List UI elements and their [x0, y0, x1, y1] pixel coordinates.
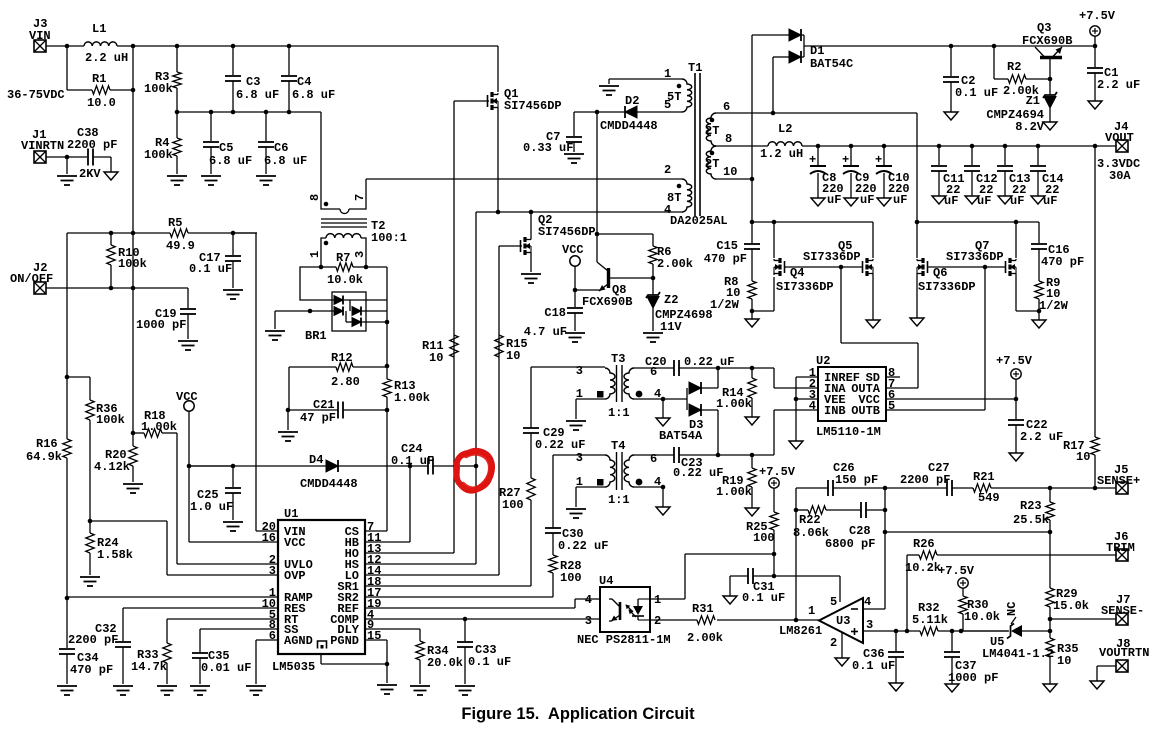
wire LO stub [365, 574, 499, 576]
resistor R15 10 [495, 335, 503, 357]
wire Q2 gate [499, 245, 522, 247]
svg-text:1.00k: 1.00k [141, 420, 177, 434]
svg-text:3: 3 [353, 251, 367, 258]
svg-text:U1: U1 [284, 507, 298, 521]
svg-text:47 pF: 47 pF [300, 411, 336, 425]
diode bridge BR1 [332, 292, 366, 331]
wire RAMP [67, 596, 278, 598]
capacitor C24 0.1 uF [427, 458, 429, 475]
power +7.5V [1090, 26, 1100, 36]
wire R26 down [906, 555, 908, 631]
wire vertical input divider [132, 46, 134, 433]
svg-text:0.1 uF: 0.1 uF [852, 659, 895, 673]
svg-text:16: 16 [262, 531, 276, 545]
svg-text:2KV: 2KV [79, 167, 101, 181]
node junction [1093, 44, 1098, 49]
svg-text:1.00k: 1.00k [716, 485, 752, 499]
capacitor C29 0.22 uF [530, 433, 532, 478]
resistor R33 14.7k [166, 619, 168, 643]
svg-text:1000 pF: 1000 pF [136, 318, 186, 332]
svg-text:2: 2 [654, 614, 661, 628]
wire [210, 112, 212, 141]
svg-text:+: + [875, 153, 882, 167]
diode D4 CMDD4448 [326, 460, 338, 472]
wire U3 pin2 ground [841, 632, 843, 658]
wire OUTB net [886, 409, 985, 411]
svg-text:100k: 100k [118, 257, 147, 271]
wire [361, 238, 366, 267]
capacitor C22 2.2 uF [1015, 399, 1017, 419]
wire Q4 source [752, 310, 774, 312]
wire SENSE- row [1050, 618, 1116, 620]
svg-text:R2: R2 [1007, 60, 1021, 74]
node junction [883, 508, 888, 513]
wire T1 pin6 [716, 112, 917, 114]
transformer T2 core [321, 218, 367, 220]
wire [176, 156, 178, 174]
wire [110, 265, 112, 288]
resistor R29 15.0k [1046, 588, 1054, 607]
node junction [661, 397, 666, 402]
wire [93, 156, 111, 158]
op-amp U4 NEC PS2811-1M optocoupler [600, 587, 650, 632]
wire U3 pin5 [839, 576, 841, 602]
node junction [385, 320, 390, 325]
transistor Q7 SI7336DP [1008, 258, 1011, 263]
svg-text:4: 4 [864, 595, 871, 609]
wire [353, 266, 366, 268]
ground Q5 [866, 320, 880, 328]
wire T3 pin1 [576, 398, 605, 400]
wire [232, 46, 234, 75]
svg-text:2.2 uH: 2.2 uH [85, 51, 128, 65]
wire [110, 233, 112, 245]
svg-text:DA2025AL: DA2025AL [670, 214, 728, 228]
node junction [131, 44, 136, 49]
capacitor C8 220 uF [817, 146, 819, 165]
svg-text:10.0k: 10.0k [964, 610, 1000, 624]
wire minus input column [884, 488, 886, 609]
node junction [1003, 144, 1008, 149]
ground C1 [1088, 101, 1102, 109]
diode D3 BAT54A [686, 388, 688, 410]
transformer T3 1:1 [605, 368, 615, 399]
svg-text:0.1 uF: 0.1 uF [468, 655, 511, 669]
svg-text:2.2 uF: 2.2 uF [1097, 78, 1140, 92]
wire [122, 647, 124, 684]
svg-text:0.1 uF: 0.1 uF [955, 86, 998, 100]
power +7.5V [1011, 369, 1021, 379]
svg-text:8.2V: 8.2V [1015, 120, 1045, 134]
resistor R5 49.9 [170, 229, 188, 237]
node junction [65, 596, 70, 601]
wire [386, 664, 388, 683]
resistor R2 2.00k [993, 46, 995, 79]
svg-text:R12: R12 [331, 351, 353, 365]
wire T3 pin3 [531, 366, 605, 368]
capacitor C11 22 uF [938, 146, 940, 165]
wire [166, 663, 168, 684]
resistor R34 20.0k [419, 629, 421, 641]
node junction [1093, 144, 1098, 149]
svg-text:uF: uF [1043, 194, 1057, 208]
svg-text:6.8 uF: 6.8 uF [264, 154, 307, 168]
ground Q6 [910, 318, 924, 326]
svg-text:uF: uF [893, 193, 907, 207]
svg-text:20.0k: 20.0k [427, 656, 463, 670]
svg-text:0.22 uF: 0.22 uF [535, 438, 585, 452]
svg-text:2200 pF: 2200 pF [900, 473, 950, 487]
svg-text:10: 10 [1057, 654, 1071, 668]
capacitor C18 4.7 uF [574, 290, 576, 307]
wire RES [123, 607, 278, 609]
wire C20 out [679, 367, 774, 369]
svg-text:U2: U2 [816, 354, 830, 368]
node junction [408, 464, 413, 469]
node junction [794, 618, 799, 623]
capacitor C30 0.22 uF [552, 533, 554, 555]
wire [265, 112, 267, 141]
svg-text:SI7336DP: SI7336DP [946, 250, 1004, 264]
transistor Q8 FCX690B [607, 268, 610, 288]
svg-text:10: 10 [429, 351, 443, 365]
wire Q6 source [916, 275, 918, 318]
ground R20 [123, 484, 143, 493]
wire DLY [365, 628, 420, 630]
transistor Q2 SI7456DP [530, 212, 532, 238]
wire Q8 emitter [575, 289, 600, 291]
wire [288, 409, 338, 411]
svg-text:Z2: Z2 [664, 293, 678, 307]
svg-text:R16: R16 [36, 437, 58, 451]
node junction [1037, 309, 1042, 314]
svg-text:VCC: VCC [284, 536, 306, 550]
svg-text:30A: 30A [1109, 169, 1131, 183]
wire [89, 553, 91, 575]
ground Z2 [643, 333, 663, 342]
svg-text:2T: 2T [705, 124, 719, 138]
wire sync rail A [752, 221, 873, 223]
svg-text:36-75VDC: 36-75VDC [7, 88, 65, 102]
wire [89, 521, 91, 533]
ground C8 [811, 198, 825, 206]
node junction [1048, 530, 1053, 535]
node junction [131, 286, 136, 291]
capacitor C10 220 uF [883, 146, 885, 165]
resistor R17 10 [1094, 146, 1096, 437]
node junction [950, 629, 955, 634]
svg-text:LM5035: LM5035 [272, 660, 315, 674]
wire R31 to U4 [650, 619, 697, 621]
svg-text:3: 3 [576, 451, 583, 465]
capacitor C36 0.1 uF [895, 631, 897, 651]
svg-text:+7.5V: +7.5V [938, 564, 975, 578]
wire [133, 432, 144, 434]
node junction [287, 44, 292, 49]
svg-text:VCC: VCC [562, 243, 584, 257]
wire [66, 458, 68, 598]
capacitor C16 470 pF [1038, 222, 1040, 243]
capacitor C20 0.22 uF [673, 360, 675, 376]
wire [66, 46, 68, 90]
svg-text:R21: R21 [973, 470, 995, 484]
resistor R11 10 [450, 335, 458, 357]
terminal J5 SENSE+ [1116, 482, 1128, 494]
wire INB net [773, 410, 775, 455]
svg-text:VOUTRTN: VOUTRTN [1099, 646, 1149, 660]
svg-text:6: 6 [650, 452, 657, 466]
node junction [839, 265, 844, 270]
capacitor C13 22 uF [1004, 146, 1006, 165]
wire UVLO net [176, 433, 178, 564]
transistor Q3 FCX690B [1040, 56, 1062, 59]
transistor Q4 SI7336DP [773, 222, 775, 258]
wire T2 pin7 to T1 pin2 [366, 178, 682, 180]
node junction [65, 155, 70, 160]
wire [89, 377, 91, 400]
wire [751, 368, 753, 378]
svg-text:C3: C3 [246, 75, 260, 89]
svg-text:1/2W: 1/2W [1039, 299, 1069, 313]
wire R23-R29 column [1049, 532, 1051, 588]
svg-text:1000 pF: 1000 pF [948, 671, 998, 685]
wire U2 VCC [886, 398, 1016, 400]
ground C33 [455, 686, 475, 695]
resistor R9 10 1/2W [1035, 281, 1043, 299]
svg-text:uF: uF [1010, 194, 1024, 208]
ground R9 [1032, 320, 1046, 328]
svg-text:CMDD4448: CMDD4448 [300, 477, 358, 491]
svg-text:SENSE+: SENSE+ [1097, 474, 1140, 488]
node junction [1014, 397, 1019, 402]
wire [232, 261, 234, 288]
svg-text:2.00k: 2.00k [657, 257, 693, 271]
wire OUTA net [886, 387, 918, 389]
transformer T1 secondary windings [706, 113, 716, 146]
svg-text:49.9: 49.9 [166, 239, 195, 253]
svg-text:C18: C18 [544, 306, 566, 320]
wire AGND [256, 639, 278, 641]
wire [132, 466, 134, 482]
node junction [65, 44, 70, 49]
terminal J6 TRIM [1116, 549, 1128, 561]
svg-text:+7.5V: +7.5V [996, 354, 1033, 368]
svg-text:10.2k: 10.2k [905, 561, 941, 575]
svg-text:T3: T3 [611, 352, 625, 366]
svg-text:SI7336DP: SI7336DP [918, 280, 976, 294]
wire [188, 232, 257, 234]
wire T1 pin5 [574, 111, 682, 113]
svg-text:R23: R23 [1020, 499, 1042, 513]
svg-text:1: 1 [654, 593, 661, 607]
ground T1 pin1 [599, 86, 619, 95]
wire [353, 366, 387, 368]
shunt U5 LM4041-1.2 [1011, 625, 1022, 637]
ground U2 [789, 441, 803, 449]
ground C18 [565, 333, 585, 342]
svg-text:CMDD4448: CMDD4448 [600, 119, 658, 133]
ground C6 [256, 176, 276, 185]
svg-text:FCX690B: FCX690B [582, 295, 632, 309]
transistor Q1 SI7456DP [490, 92, 493, 97]
zener Z2 CMPZ4698 11V [652, 278, 654, 295]
resistor R22 8.06k [796, 509, 808, 511]
svg-text:5: 5 [664, 98, 671, 112]
wire Q8 base [609, 277, 653, 279]
terminal J7 SENSE- [1116, 613, 1128, 625]
wire BR1 right [366, 266, 387, 268]
svg-text:SI7336DP: SI7336DP [803, 250, 861, 264]
svg-text:2: 2 [830, 636, 837, 650]
svg-text:3: 3 [585, 614, 592, 628]
ground PGND [377, 685, 397, 694]
capacitor C12 22 uF [971, 146, 973, 165]
node junction [595, 110, 600, 115]
terminal J2 ON/OFF [34, 282, 46, 294]
svg-text:0.1 uF: 0.1 uF [742, 591, 785, 605]
ground C12 [965, 196, 979, 204]
wire Q4/Q5 gates [784, 266, 863, 268]
wire U3 output [717, 619, 819, 621]
node junction [894, 629, 899, 634]
ground C37 [945, 684, 959, 692]
ground AGND [246, 686, 266, 695]
ground R24 [80, 577, 100, 586]
wire [288, 46, 290, 75]
node junction [131, 88, 136, 93]
svg-text:3: 3 [269, 564, 276, 578]
wire [321, 266, 336, 268]
node T1 polarity 2 [677, 184, 682, 189]
node junction [88, 519, 93, 524]
ground C36 [889, 683, 903, 691]
svg-text:6: 6 [723, 100, 730, 114]
wire Q7 source [1015, 275, 1017, 311]
wire [66, 157, 68, 174]
node junction [959, 629, 964, 634]
wire +7.5V rail [804, 45, 1095, 47]
op-amp U3 LM8261 [819, 598, 863, 643]
ground C32 [113, 686, 133, 695]
node junction [772, 574, 777, 579]
wire R32 right [938, 630, 1009, 632]
node junction [1014, 220, 1019, 225]
ground Z1 [1043, 122, 1057, 130]
wire [275, 310, 335, 312]
node junction [883, 530, 888, 535]
svg-text:OVP: OVP [284, 569, 306, 583]
node junction [319, 265, 324, 270]
node T1 sec polarity A [710, 118, 715, 123]
svg-text:BR1: BR1 [305, 329, 327, 343]
node junction [131, 431, 136, 436]
svg-text:uF: uF [944, 194, 958, 208]
capacitor C27 2200 pF [946, 480, 948, 496]
transformer T1 core [694, 73, 696, 216]
wire VIN feed [233, 232, 257, 234]
node junction [231, 464, 236, 469]
node junction [385, 364, 390, 369]
svg-text:2.00k: 2.00k [687, 631, 723, 645]
wire J8 [1097, 665, 1116, 667]
svg-text:2: 2 [664, 163, 671, 177]
wire [67, 376, 90, 378]
wire sync rail B [918, 221, 1039, 223]
ground C21 [278, 432, 298, 441]
svg-text:10: 10 [506, 349, 520, 363]
ground C9 [844, 198, 858, 206]
resistor R35 10 [1049, 631, 1051, 638]
wire [176, 112, 178, 138]
svg-text:1: 1 [664, 67, 671, 81]
transformer T1 primary winding 1 (5T) [609, 78, 682, 80]
svg-text:8: 8 [725, 132, 732, 146]
svg-text:SI7456DP: SI7456DP [538, 225, 596, 239]
wire [210, 147, 212, 174]
svg-text:D2: D2 [625, 94, 639, 108]
ground C10 [877, 198, 891, 206]
svg-text:1.2 uH: 1.2 uH [760, 147, 803, 161]
ground C2 [944, 112, 958, 120]
svg-text:VIN: VIN [29, 29, 51, 43]
ground C17 [223, 290, 243, 299]
power +7.5V [769, 478, 779, 488]
node T1 polarity 1 [677, 84, 682, 89]
svg-text:+: + [809, 153, 816, 167]
wire D3 cathodes [701, 387, 718, 389]
wire Q5 drain [872, 222, 874, 258]
svg-text:6.8 uF: 6.8 uF [292, 88, 335, 102]
svg-text:4: 4 [585, 593, 592, 607]
U1 exposed pad symbol [318, 641, 327, 649]
svg-text:2.2 uF: 2.2 uF [1020, 430, 1063, 444]
wire T1 pin6 drop [916, 113, 918, 258]
wire [176, 88, 178, 112]
terminal J1 VINRTN [34, 151, 46, 163]
wire [110, 89, 133, 91]
capacitor C19 1000 pF [187, 288, 189, 308]
wire T4 pin3 [553, 454, 605, 456]
svg-text:0.01 uF: 0.01 uF [201, 661, 251, 675]
svg-text:Q3: Q3 [1037, 21, 1051, 35]
svg-text:100k: 100k [144, 148, 173, 162]
svg-text:6.8 uF: 6.8 uF [209, 154, 252, 168]
svg-text:SENSE-: SENSE- [1101, 604, 1144, 618]
svg-text:L1: L1 [92, 22, 106, 36]
svg-text:5: 5 [888, 399, 895, 413]
svg-text:0.1 uF: 0.1 uF [189, 262, 232, 276]
wire C23 out [679, 454, 774, 456]
svg-text:6: 6 [269, 629, 276, 643]
svg-text:5: 5 [830, 595, 837, 609]
ground C35 [190, 686, 210, 695]
svg-text:C15: C15 [716, 239, 738, 253]
capacitor C33 0.1 uF [464, 619, 466, 641]
node junction [287, 110, 292, 115]
svg-text:10.0: 10.0 [87, 96, 116, 110]
wire [349, 179, 366, 209]
svg-text:OUTB: OUTB [851, 404, 880, 418]
node junction [794, 508, 799, 513]
wire [232, 466, 234, 487]
wire R5 feed [67, 232, 170, 234]
svg-text:2200 pF: 2200 pF [68, 633, 118, 647]
ground R34 [410, 686, 430, 695]
wire T4 pin1 [576, 486, 605, 488]
svg-text:0.22 uF: 0.22 uF [558, 539, 608, 553]
resistor R21 549 [952, 487, 973, 489]
ground J8 [1090, 681, 1104, 689]
